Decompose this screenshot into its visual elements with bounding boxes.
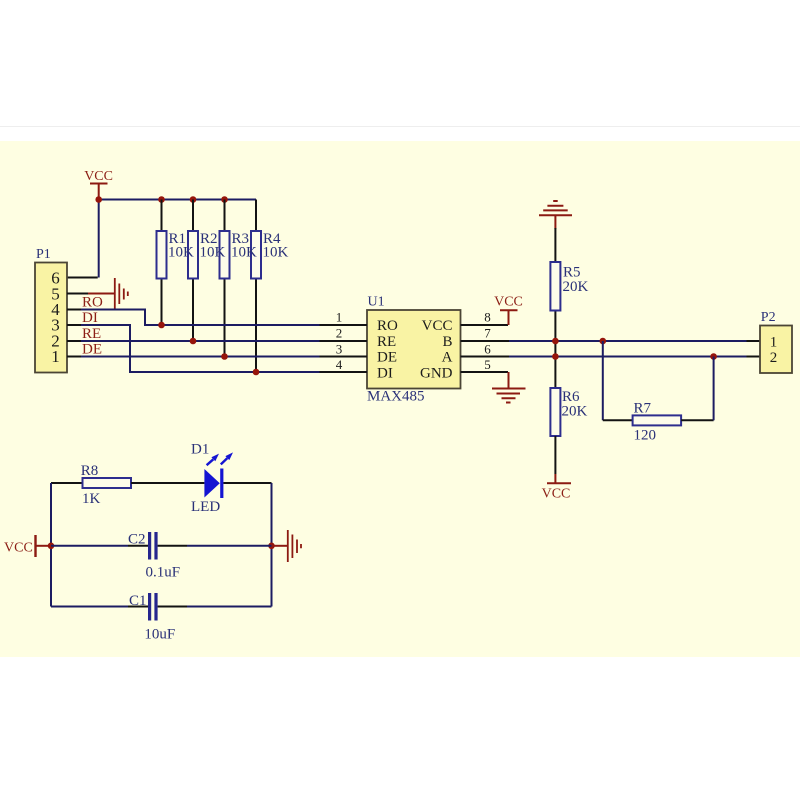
pin 5 GND [461,371,509,373]
svg-text:6: 6 [484,341,491,356]
svg-text:VCC: VCC [4,541,33,556]
svg-text:DE: DE [377,350,397,366]
power symbol VCC (below R6) [542,474,571,502]
svg-text:RO: RO [377,318,398,334]
pin 8 VCC [461,324,509,326]
wire net DE (P1.1 to U1.3) [81,356,320,358]
power symbol VCC (U1 pin8) [494,295,523,326]
svg-text:DI: DI [82,310,98,326]
svg-text:C2: C2 [128,532,146,548]
svg-text:P2: P2 [761,310,776,325]
svg-text:A: A [442,350,453,366]
resistor R2 [188,200,198,342]
junction dot R1/RO [158,322,165,329]
svg-text:GND: GND [420,365,453,381]
wire net DI (P1.3 to U1.4) [81,325,320,372]
connector P2 [760,310,792,373]
svg-text:1: 1 [51,347,60,366]
svg-text:R8: R8 [81,463,99,479]
junction dot R4/DI [253,369,260,376]
ground symbol (top, above R5) [539,201,572,229]
schematic background [0,141,800,657]
ground symbol (right of C2) [272,530,302,562]
pin 2 RE [320,340,368,342]
pin 1 RO [320,324,368,326]
wire R5/R6 link across B and A [554,341,556,388]
junction dot R6 on A [552,353,559,360]
IC U1 MAX485 [320,295,510,405]
capacitor C2 [51,532,272,581]
svg-text:10K: 10K [231,245,257,261]
resistor R3 [220,200,230,357]
pin 7 B [461,340,510,342]
wire right branch vertical [271,483,273,607]
power symbol VCC (top left) [84,169,113,200]
connector P1 [35,247,88,373]
junction dot R3/DE [221,353,228,360]
LED D1 [191,442,272,516]
junction dot R2 top [190,196,197,203]
svg-text:1: 1 [770,334,778,350]
ground symbol at P1 pin5 [88,278,128,309]
svg-text:VCC: VCC [84,169,113,184]
resistor R6 [550,388,587,474]
svg-text:10K: 10K [200,245,226,261]
wire net B (U1.7 to P2.1) [509,340,747,342]
junction dot R7 right on A [710,353,717,360]
svg-text:7: 7 [484,326,491,341]
svg-text:VCC: VCC [422,318,453,334]
value label R1 10K [168,231,194,261]
resistor R1 [157,200,167,326]
svg-text:B: B [442,334,452,350]
svg-text:2: 2 [336,326,343,341]
svg-text:1: 1 [336,310,343,325]
wire net RE (P1.2 to U1.2) [81,340,320,342]
svg-text:RE: RE [82,326,101,342]
ground symbol at U1 pin5 [492,372,526,403]
svg-text:10uF: 10uF [144,627,175,643]
svg-text:D1: D1 [191,442,209,458]
value label R2 10K [200,231,226,261]
junction dot R5 on B [552,338,559,345]
svg-text:120: 120 [634,428,657,444]
svg-text:20K: 20K [563,279,589,295]
wire VCC top rail [99,199,256,201]
value label R4 10K [263,231,289,261]
svg-text:MAX485: MAX485 [367,389,425,405]
resistor R8 [51,463,204,507]
svg-text:3: 3 [336,341,343,356]
pin 4 DI [320,371,368,373]
LED arrow 2 [221,458,228,464]
port VCC (left of C2) [4,535,48,557]
svg-text:C1: C1 [129,593,147,609]
svg-text:VCC: VCC [494,295,523,310]
resistor R5 [550,228,588,341]
svg-text:10K: 10K [263,245,289,261]
svg-text:DE: DE [82,342,102,358]
svg-text:DI: DI [377,365,393,381]
svg-text:U1: U1 [368,295,385,310]
svg-text:5: 5 [484,357,491,372]
junction dot VCC rail [95,196,102,203]
svg-text:10K: 10K [168,245,194,261]
svg-text:R7: R7 [634,401,652,417]
svg-text:20K: 20K [562,404,588,420]
capacitor C1 [51,593,272,643]
wire net RO (P1.4 to U1.1) [81,310,320,326]
pin 3 DE [320,356,368,358]
junction dot R1 top [158,196,165,203]
svg-text:8: 8 [484,310,491,325]
junction dot VCC/C2 left [48,543,55,550]
svg-text:2: 2 [770,350,778,366]
resistor R4 [251,200,261,373]
junction dot C2 right [268,543,275,550]
junction dot R7 left on B [600,338,607,345]
junction dot R2/RE [190,338,197,345]
wire net A (U1.6 to P2.2) [509,356,747,358]
svg-text:P1: P1 [36,247,51,262]
pin 6 A [461,356,510,358]
svg-text:4: 4 [336,357,343,372]
svg-text:0.1uF: 0.1uF [146,565,181,581]
junction dot R3 top [221,196,228,203]
svg-text:LED: LED [191,499,220,515]
resistor R7 [603,341,714,444]
wire left branch vertical [50,483,52,607]
LED arrow 1 [207,459,214,465]
wire VCC drop to P1 pin6 [98,200,100,278]
svg-text:RE: RE [377,334,396,350]
svg-text:RO: RO [82,295,103,311]
svg-text:VCC: VCC [542,487,571,502]
value label R3 10K [231,231,257,261]
svg-text:1K: 1K [82,491,101,507]
